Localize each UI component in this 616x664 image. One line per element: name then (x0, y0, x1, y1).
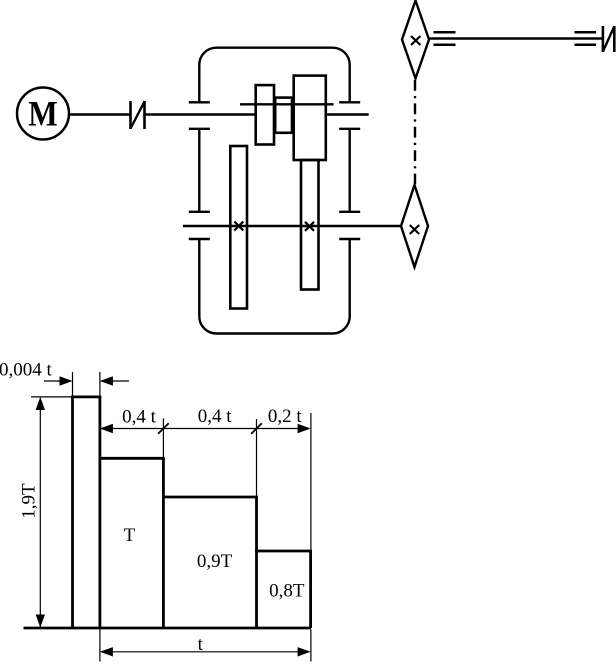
svg-text:T: T (124, 525, 136, 546)
svg-text:0,4 t: 0,4 t (122, 407, 157, 428)
svg-text:0,9T: 0,9T (197, 551, 233, 572)
svg-text:t: t (198, 634, 204, 655)
svg-text:0,4 t: 0,4 t (198, 406, 233, 427)
svg-text:1,9T: 1,9T (19, 483, 40, 519)
svg-text:0,8T: 0,8T (269, 581, 305, 602)
svg-text:0,2 t: 0,2 t (268, 406, 303, 427)
svg-text:M: M (28, 93, 58, 133)
svg-text:0,004 t: 0,004 t (0, 359, 53, 380)
